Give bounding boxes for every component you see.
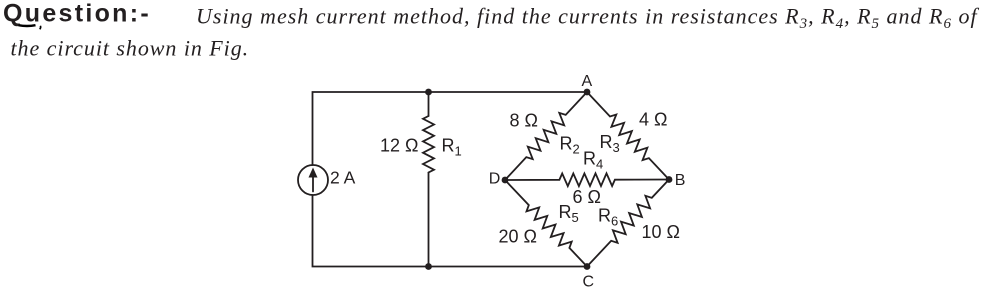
wire bottom rail [313,195,588,267]
resistor R2 [505,92,587,180]
node A dot [584,89,591,96]
svg-text:8 Ω: 8 Ω [510,111,538,131]
resistor R5 [505,180,587,267]
svg-text:R1: R1 [442,136,462,159]
resistor R1 [423,92,434,267]
junction dot R1 top [425,89,432,96]
svg-text:6 Ω: 6 Ω [573,187,601,207]
svg-text:Using mesh current method, fin: Using mesh current method, find the curr… [196,4,979,33]
svg-text:R6: R6 [598,206,618,229]
svg-text:12 Ω: 12 Ω [380,136,418,156]
svg-text:D: D [489,171,501,188]
current source I1 circle [298,165,328,195]
wire top rail [313,92,588,165]
svg-text:20 Ω: 20 Ω [499,227,537,247]
svg-text:4 Ω: 4 Ω [639,110,667,130]
svg-text:C: C [583,274,595,291]
resistor R4 [505,173,669,186]
svg-text:B: B [675,172,686,189]
svg-text:2 A: 2 A [330,168,356,188]
svg-text:Question:-: Question:- [3,0,151,28]
u cedilla mark [39,26,42,30]
svg-text:10 Ω: 10 Ω [642,222,680,242]
node D dot [502,177,509,184]
svg-text:R2: R2 [560,134,580,157]
junction dot R1 bottom [425,263,432,270]
node C dot [584,263,591,270]
svg-text:the circuit shown in Fig.: the circuit shown in Fig. [11,36,250,61]
resistor R6 [587,180,669,267]
svg-text:A: A [582,73,593,90]
node B dot [666,176,673,183]
Q tail swash [19,24,36,27]
current source I1 arrow [309,168,318,192]
svg-text:R3: R3 [600,132,620,155]
resistor R3 [587,92,669,180]
